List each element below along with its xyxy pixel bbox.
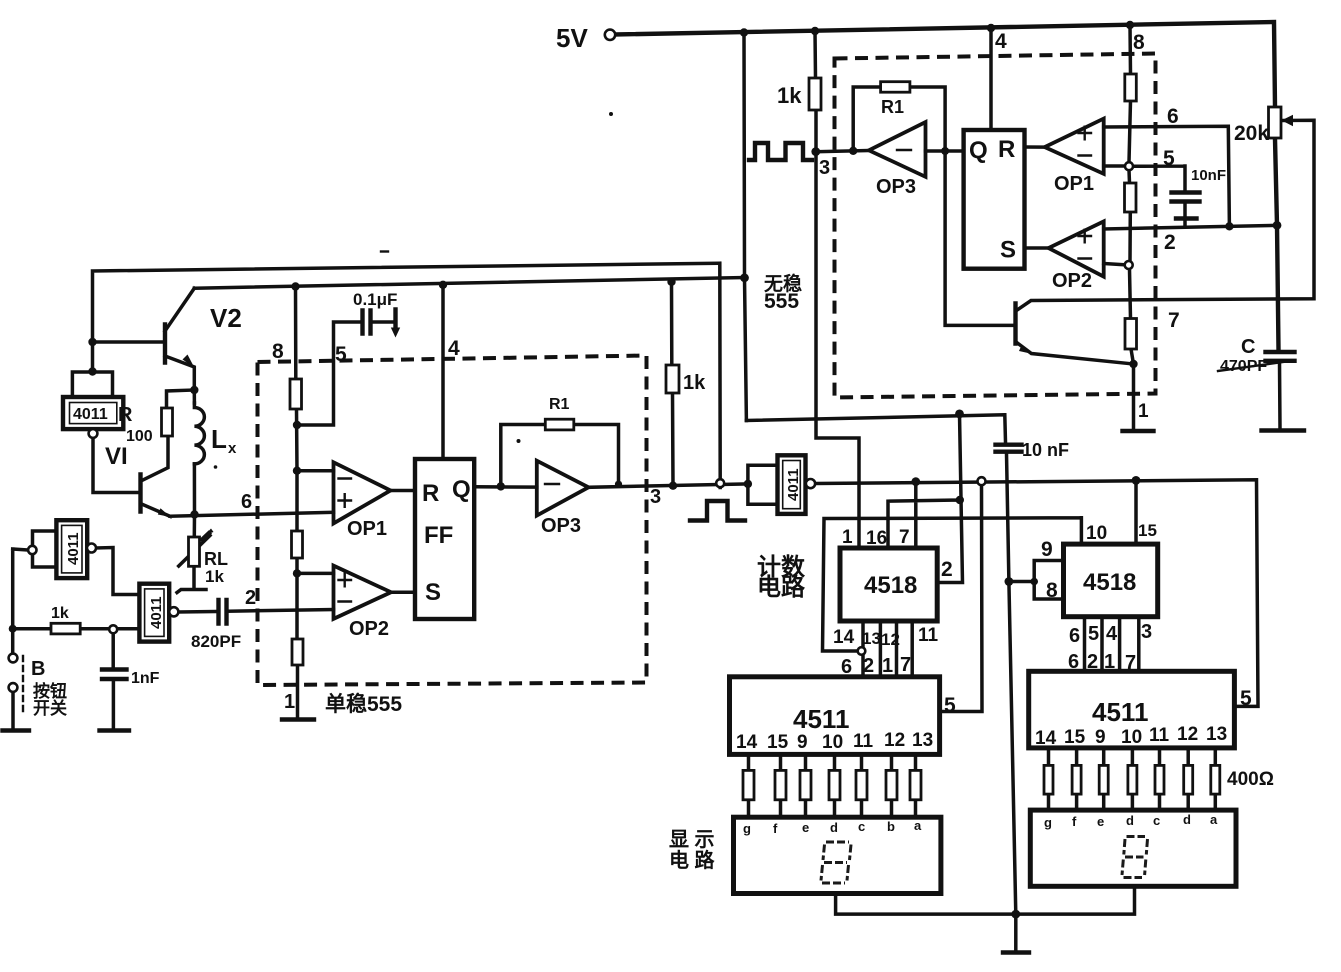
svg-text:11: 11 [918,625,939,646]
svg-text:d: d [1183,812,1191,827]
svg-text:FF: FF [424,522,453,549]
svg-text:8: 8 [1133,31,1145,54]
svg-text:电路: 电路 [757,573,806,601]
svg-text:e: e [1097,814,1104,829]
svg-text:4511: 4511 [1092,697,1148,727]
svg-text:x: x [228,440,237,457]
svg-text:a: a [1210,812,1218,827]
svg-text:4511: 4511 [793,704,849,734]
svg-text:VI: VI [105,443,128,470]
svg-text:6: 6 [241,491,252,513]
svg-text:15: 15 [767,732,789,753]
svg-text:11: 11 [853,731,874,752]
svg-text:7: 7 [900,654,911,676]
svg-text:a: a [914,818,922,833]
svg-text:f: f [773,821,778,836]
svg-text:100: 100 [126,428,153,445]
svg-text:1k: 1k [777,83,802,108]
svg-text:1: 1 [882,655,893,677]
svg-text:1: 1 [1104,651,1115,673]
svg-text:R: R [422,480,439,507]
svg-text:5: 5 [1240,687,1252,710]
svg-text:c: c [858,819,865,834]
svg-text:16: 16 [866,528,887,549]
svg-text:B: B [31,658,45,680]
svg-text:2: 2 [863,655,874,677]
svg-text:13: 13 [862,629,881,648]
svg-text:R: R [118,404,133,426]
svg-text:Q: Q [452,476,471,503]
svg-text:9: 9 [797,732,808,753]
svg-text:4011: 4011 [73,406,108,423]
svg-text:555: 555 [764,290,799,313]
svg-text:3: 3 [819,157,830,179]
svg-text:14: 14 [833,627,855,648]
svg-text:V2: V2 [210,303,242,333]
svg-text:4011: 4011 [65,532,82,565]
svg-text:2: 2 [1087,651,1098,673]
svg-text:C: C [1241,336,1255,358]
svg-text:8: 8 [272,340,284,363]
svg-text:13: 13 [912,730,933,751]
svg-text:1nF: 1nF [131,670,160,687]
svg-text:8: 8 [1046,579,1058,602]
svg-text:7: 7 [899,527,910,548]
svg-text:5: 5 [1163,147,1175,170]
svg-text:6: 6 [841,656,852,678]
svg-text:10 nF: 10 nF [1022,440,1069,460]
svg-text:R1: R1 [881,97,904,117]
svg-text:12: 12 [881,630,900,649]
svg-text:1k: 1k [51,605,69,622]
svg-text:显 示: 显 示 [669,829,715,851]
svg-text:OP2: OP2 [349,618,389,640]
svg-text:15: 15 [1138,521,1157,540]
svg-text:2: 2 [245,587,256,609]
svg-text:单稳555: 单稳555 [325,692,402,716]
svg-text:13: 13 [1206,724,1227,745]
svg-text:4518: 4518 [1083,569,1136,596]
svg-text:4: 4 [995,30,1007,53]
svg-text:11: 11 [1149,725,1170,746]
svg-text:电 路: 电 路 [669,848,716,872]
svg-text:OP1: OP1 [1054,173,1094,195]
svg-text:L: L [211,424,227,454]
svg-text:g: g [743,821,751,836]
svg-text:0.1μF: 0.1μF [353,290,397,309]
svg-text:1: 1 [284,691,295,713]
svg-text:按钮: 按钮 [33,681,67,701]
svg-text:1: 1 [842,527,853,548]
svg-text:OP3: OP3 [541,515,581,537]
svg-text:14: 14 [736,732,758,753]
svg-text:10: 10 [1086,523,1107,544]
svg-text:e: e [802,820,809,835]
svg-text:3: 3 [650,486,661,508]
svg-text:R: R [998,136,1015,163]
svg-text:S: S [1000,237,1016,264]
svg-text:6: 6 [1167,105,1179,128]
svg-text:OP3: OP3 [876,176,916,198]
svg-text:5: 5 [335,343,347,366]
svg-text:4011: 4011 [148,596,165,629]
svg-text:15: 15 [1064,727,1086,748]
svg-text:S: S [425,579,441,606]
svg-text:d: d [830,820,838,835]
svg-text:2: 2 [1164,231,1176,254]
svg-text:12: 12 [884,730,905,751]
svg-text:1: 1 [1138,401,1149,422]
svg-text:开关: 开关 [33,698,67,718]
svg-text:5: 5 [1088,623,1099,645]
svg-text:10: 10 [822,732,843,753]
svg-text:1k: 1k [205,567,224,586]
svg-text:5: 5 [944,694,956,717]
svg-text:9: 9 [1041,538,1053,561]
svg-text:2: 2 [941,558,953,581]
svg-text:4011: 4011 [785,468,802,501]
svg-text:820PF: 820PF [191,632,241,651]
svg-text:470PF: 470PF [1220,358,1267,375]
svg-text:3: 3 [1141,621,1152,643]
svg-text:9: 9 [1095,727,1106,748]
svg-text:7: 7 [1168,309,1180,332]
svg-text:d: d [1126,813,1134,828]
svg-text:14: 14 [1035,728,1057,749]
svg-text:12: 12 [1177,724,1198,745]
svg-text:OP2: OP2 [1052,270,1092,292]
svg-text:20k: 20k [1234,122,1269,145]
svg-text:f: f [1072,814,1077,829]
svg-text:10nF: 10nF [1191,167,1226,184]
svg-text:Q: Q [969,137,988,164]
svg-text:4: 4 [448,337,460,360]
svg-text:400Ω: 400Ω [1227,769,1274,790]
svg-text:5V: 5V [556,23,588,53]
svg-text:10: 10 [1121,727,1142,748]
svg-text:R1: R1 [549,396,570,413]
svg-text:6: 6 [1068,651,1079,673]
svg-text:6: 6 [1069,625,1080,647]
svg-text:4: 4 [1106,623,1118,645]
svg-text:4518: 4518 [864,572,917,599]
svg-text:c: c [1153,813,1160,828]
svg-text:7: 7 [1125,652,1136,674]
svg-text:g: g [1044,815,1052,830]
svg-text:RL: RL [204,549,228,569]
svg-text:b: b [887,819,895,834]
svg-text:OP1: OP1 [347,518,387,540]
svg-text:1k: 1k [683,372,706,394]
